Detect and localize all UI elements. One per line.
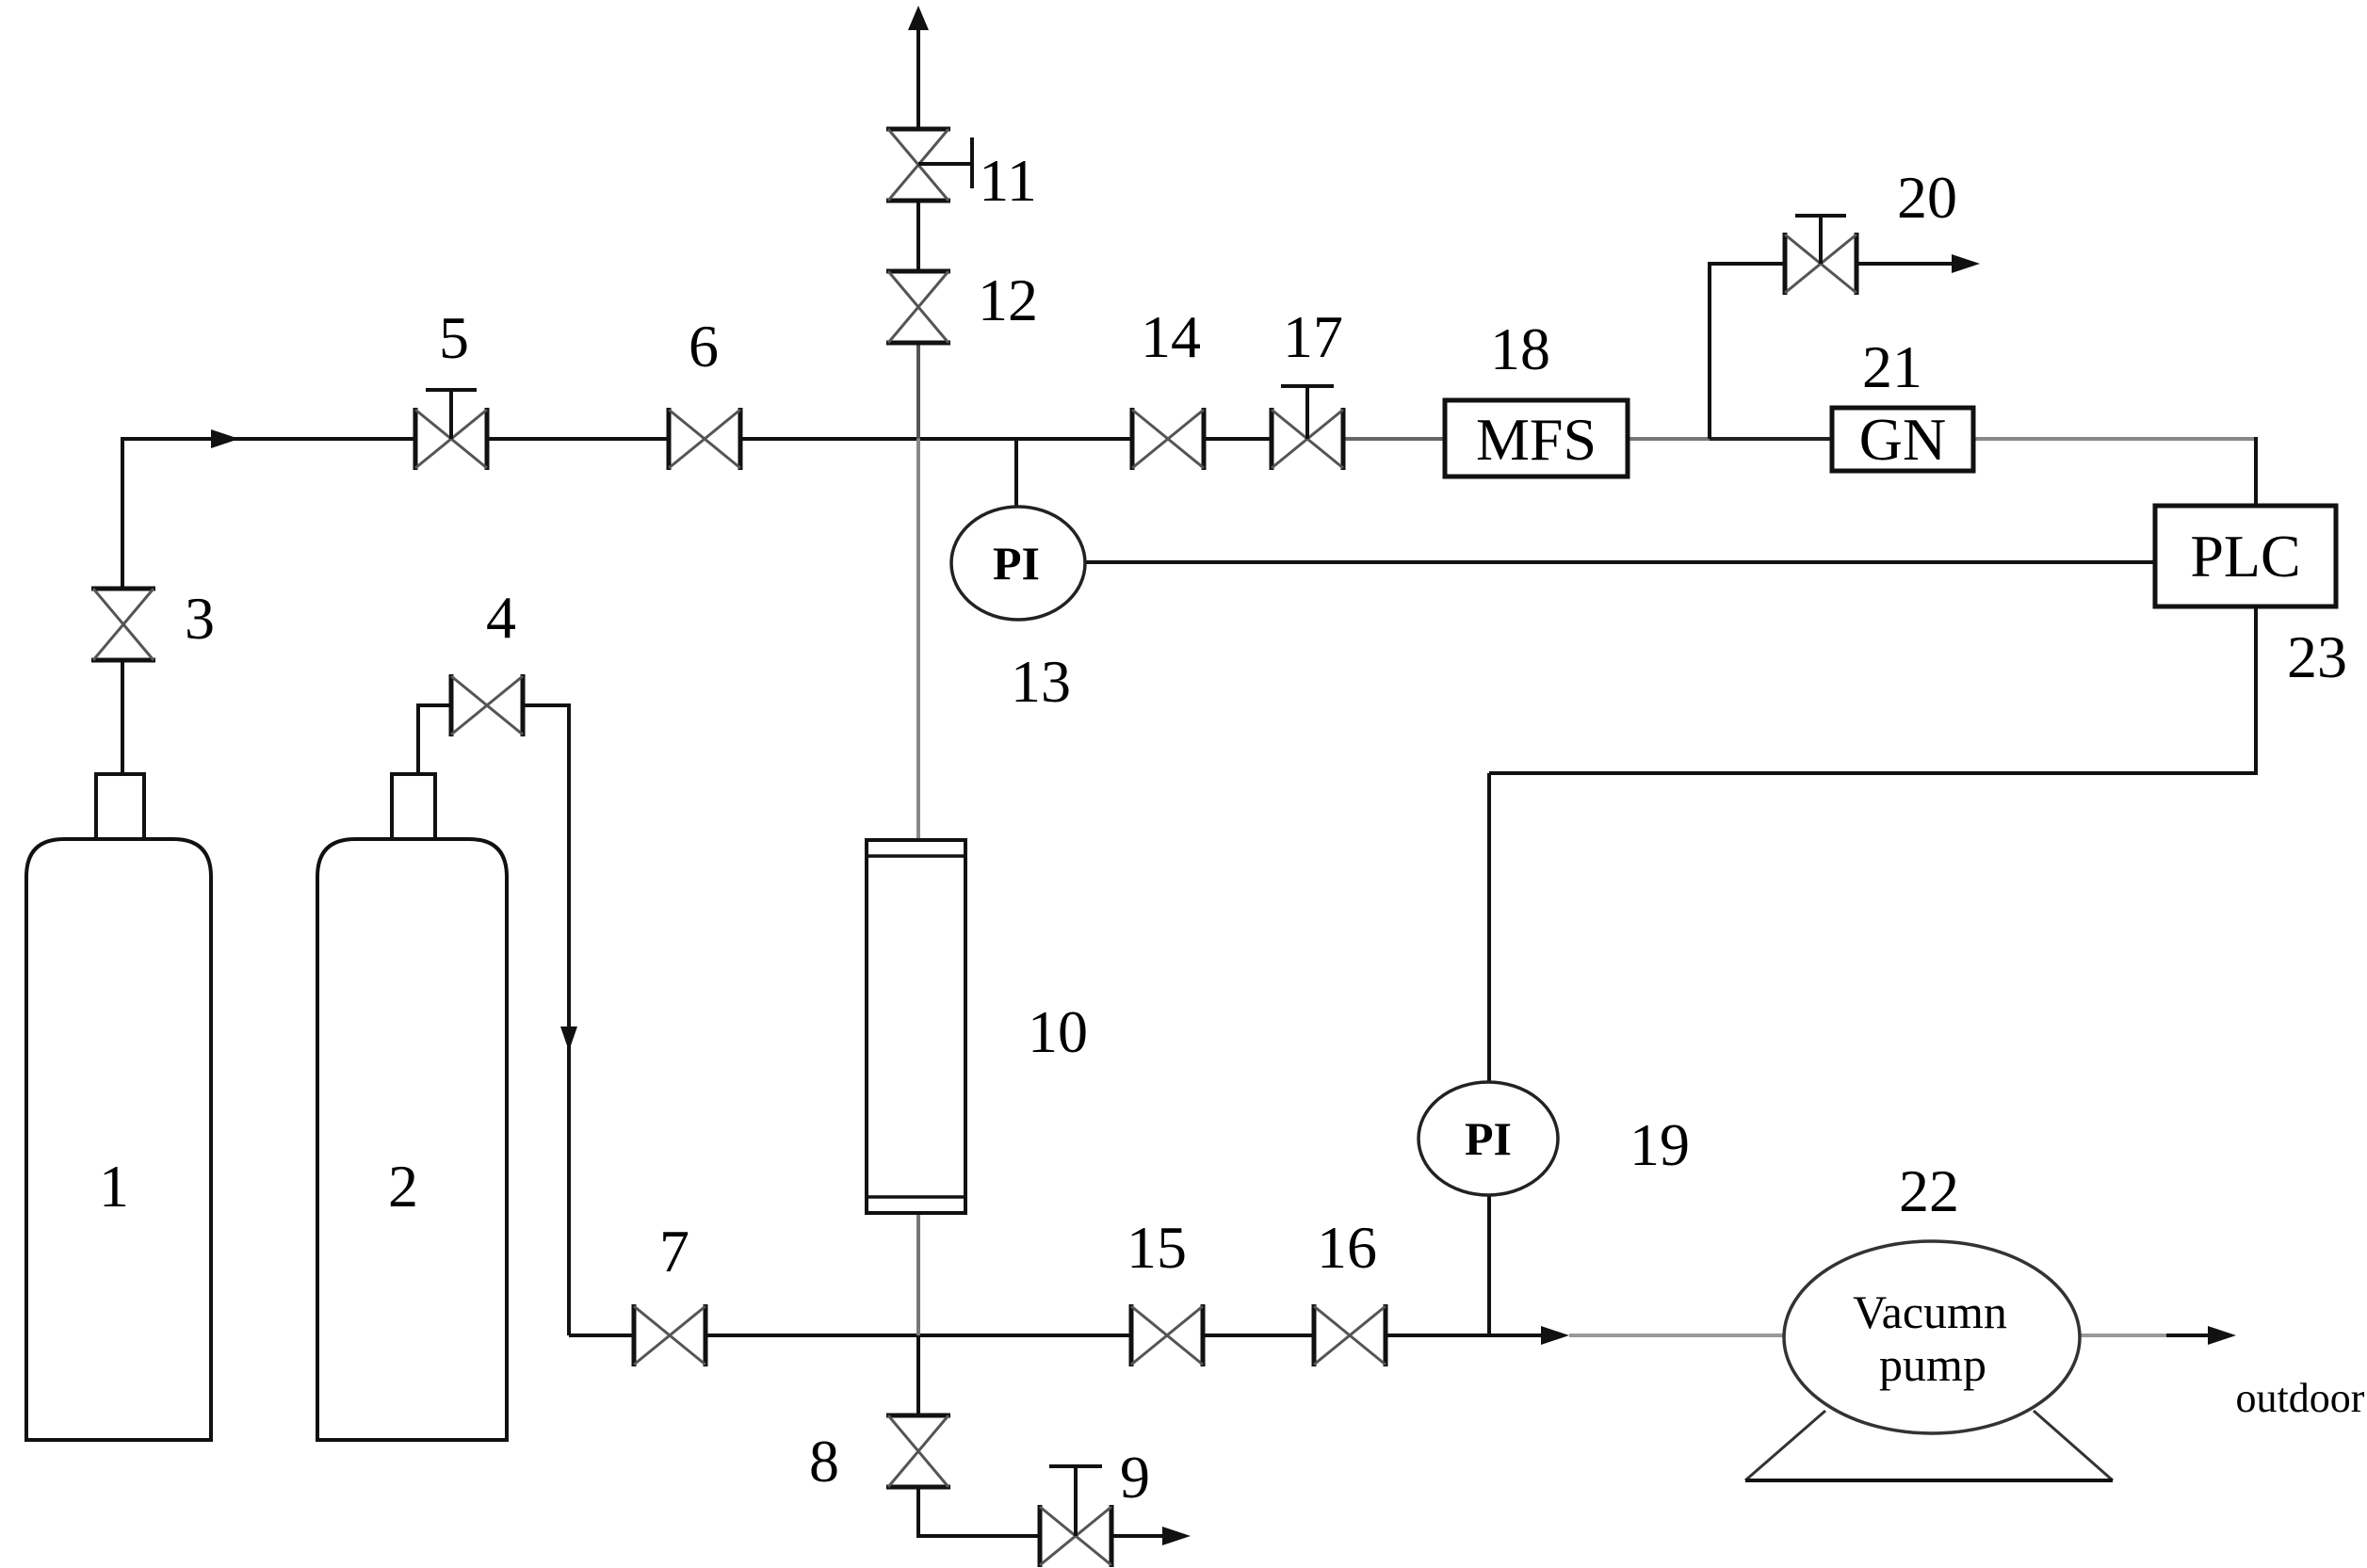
svg-text:1: 1 bbox=[99, 1153, 129, 1220]
svg-text:9: 9 bbox=[1120, 1444, 1150, 1511]
svg-text:PI: PI bbox=[993, 537, 1040, 590]
svg-text:23: 23 bbox=[2287, 623, 2347, 690]
svg-text:18: 18 bbox=[1490, 315, 1550, 382]
svg-text:21: 21 bbox=[1862, 333, 1922, 400]
svg-text:MFS: MFS bbox=[1476, 406, 1597, 473]
svg-text:16: 16 bbox=[1317, 1214, 1377, 1281]
svg-text:2: 2 bbox=[388, 1153, 418, 1220]
svg-text:7: 7 bbox=[659, 1218, 689, 1285]
svg-text:GN: GN bbox=[1859, 406, 1946, 473]
svg-text:10: 10 bbox=[1028, 998, 1088, 1065]
svg-text:outdoor: outdoor bbox=[2236, 1375, 2365, 1421]
svg-text:12: 12 bbox=[978, 267, 1038, 333]
svg-text:11: 11 bbox=[979, 147, 1037, 214]
svg-text:14: 14 bbox=[1141, 303, 1201, 370]
svg-text:20: 20 bbox=[1897, 164, 1957, 231]
svg-text:pump: pump bbox=[1879, 1338, 1986, 1391]
svg-text:5: 5 bbox=[439, 304, 469, 371]
svg-text:17: 17 bbox=[1283, 303, 1343, 370]
svg-text:6: 6 bbox=[689, 313, 719, 380]
svg-text:19: 19 bbox=[1629, 1111, 1690, 1178]
svg-text:PI: PI bbox=[1465, 1112, 1512, 1165]
svg-text:3: 3 bbox=[185, 585, 215, 652]
svg-text:15: 15 bbox=[1127, 1214, 1187, 1281]
svg-text:PLC: PLC bbox=[2190, 523, 2300, 590]
svg-text:Vacumn: Vacumn bbox=[1853, 1285, 2007, 1338]
svg-text:13: 13 bbox=[1011, 648, 1071, 715]
svg-text:8: 8 bbox=[809, 1428, 839, 1495]
svg-text:4: 4 bbox=[486, 584, 516, 651]
svg-text:22: 22 bbox=[1899, 1157, 1959, 1224]
